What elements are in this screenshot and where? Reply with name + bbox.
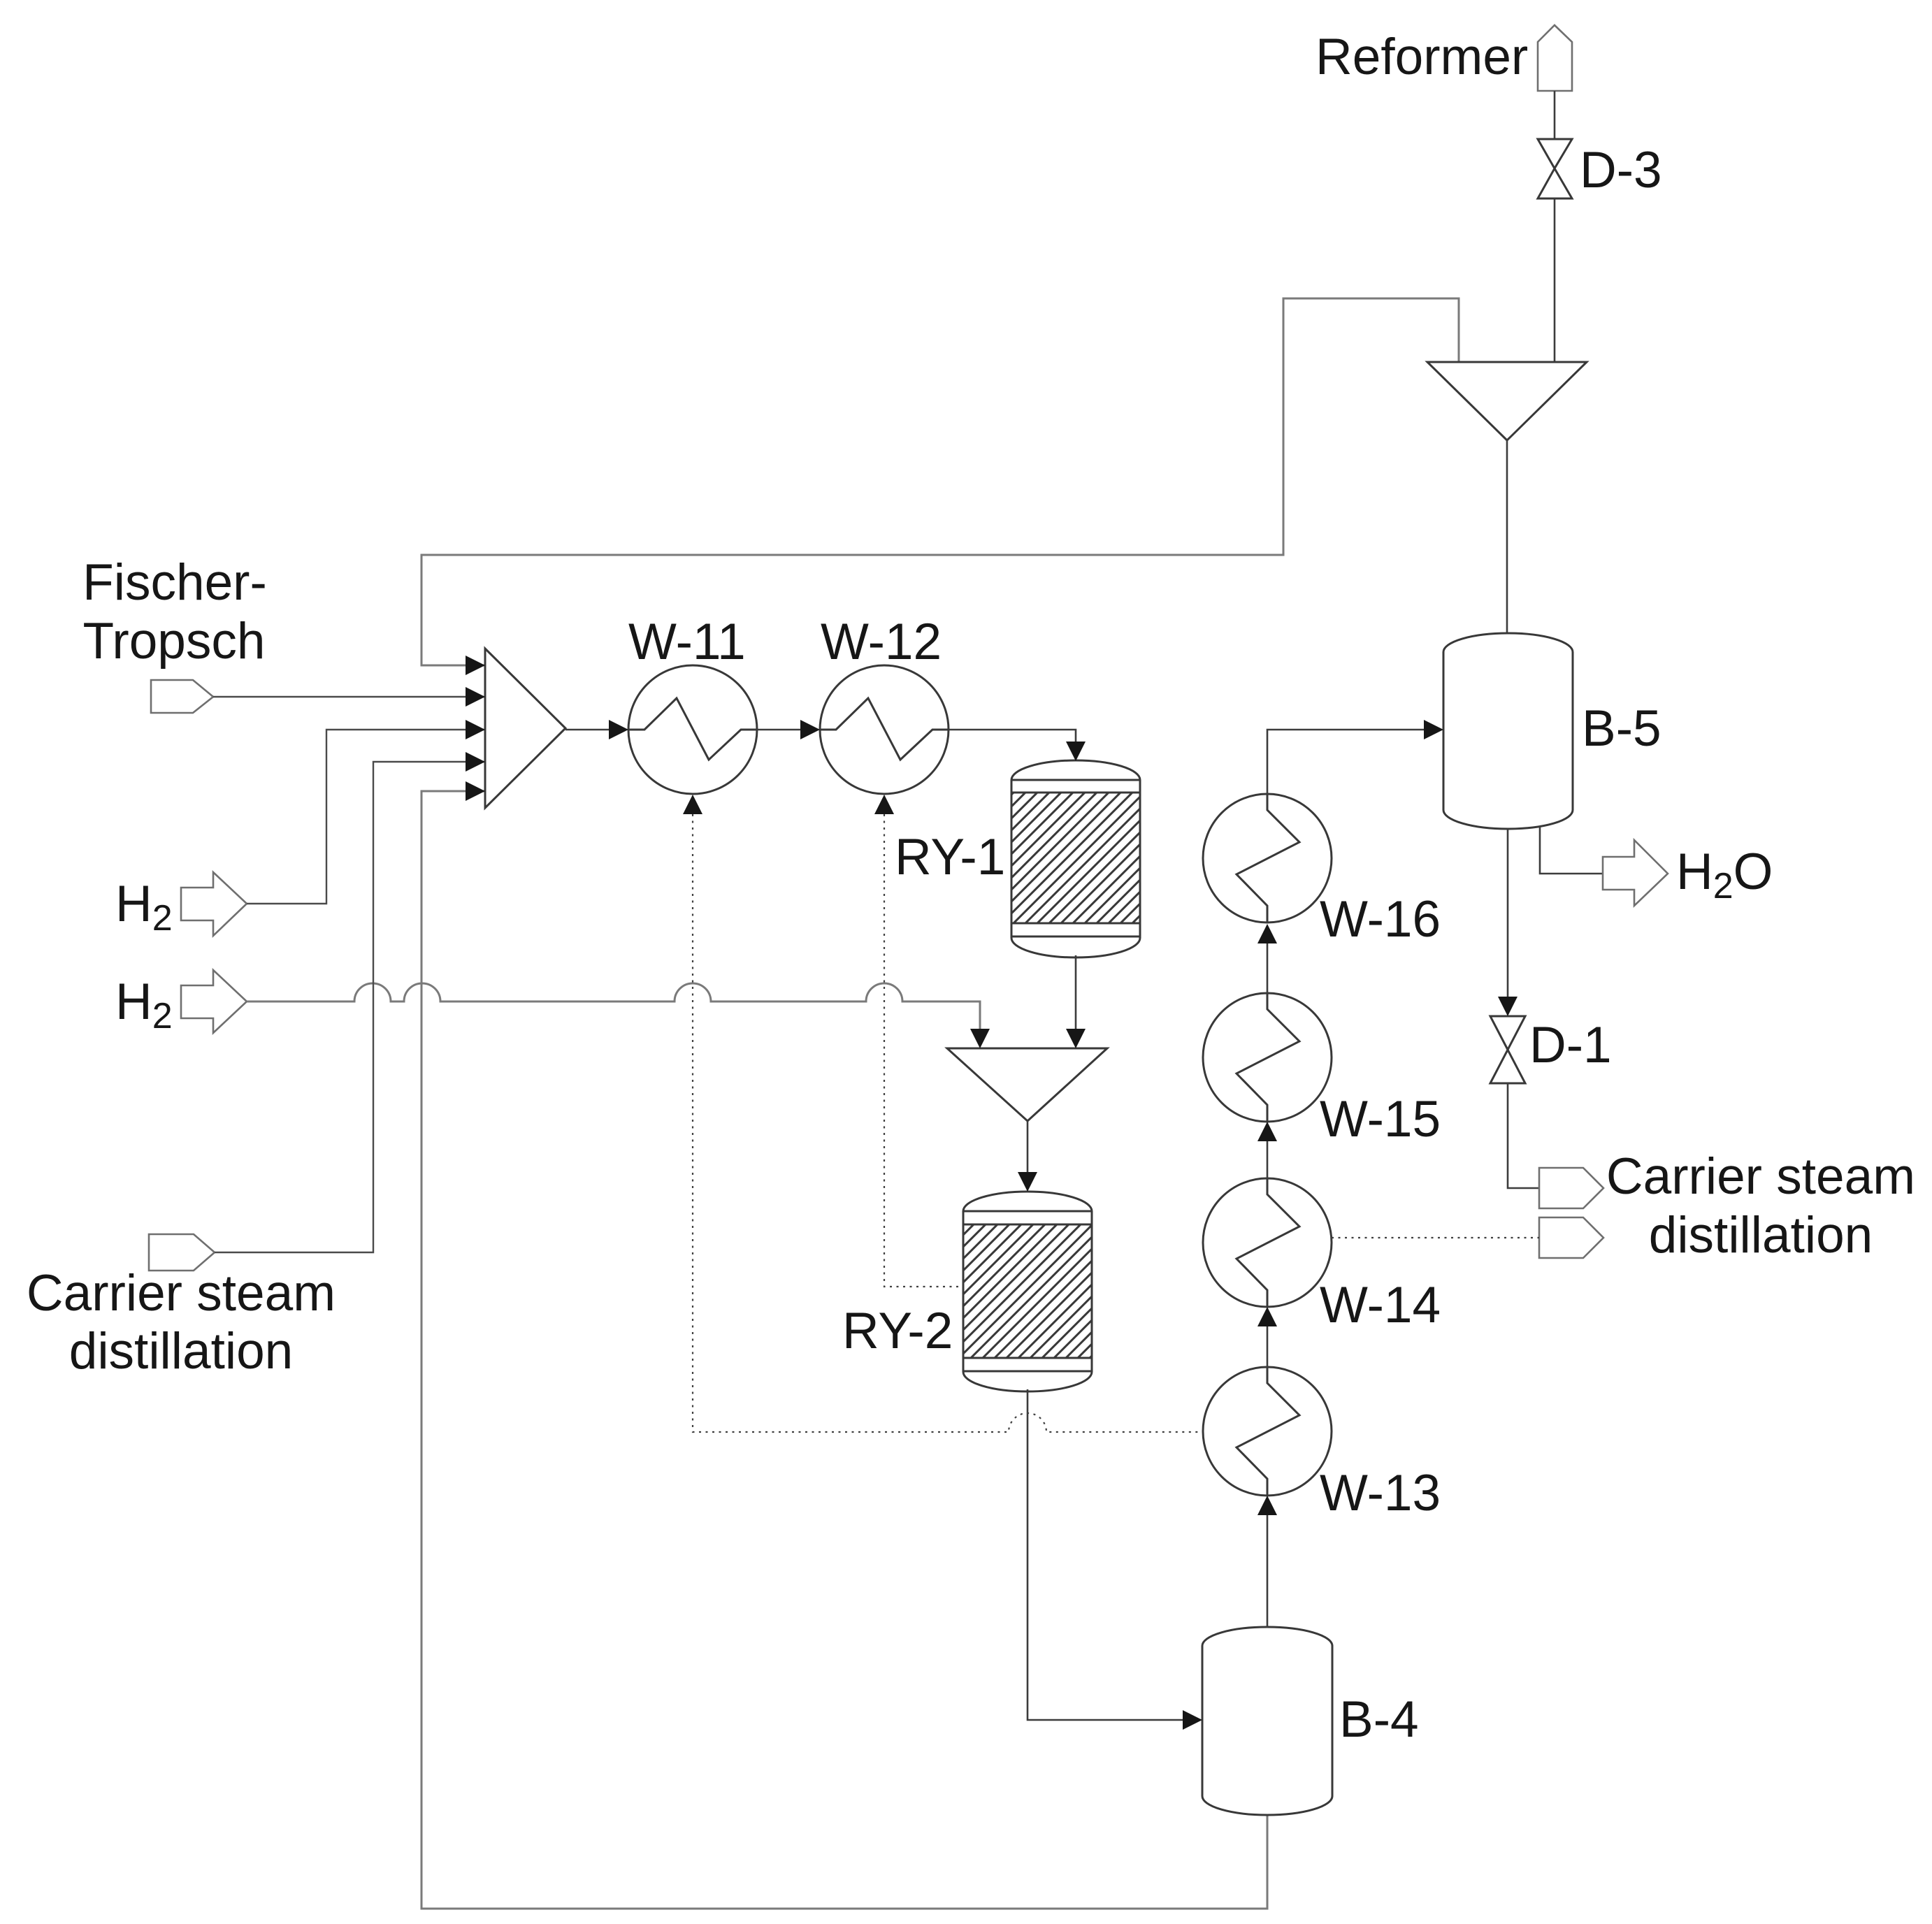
wire B-4 to W-13 [1267, 1514, 1269, 1628]
mixer M1 [485, 649, 565, 808]
svg-text:B-5: B-5 [1582, 700, 1661, 757]
flag Reformer inlet [1538, 25, 1572, 91]
wire RY-1 to M2 [1075, 955, 1077, 1030]
wire B-5 to H2O flag [1540, 826, 1603, 874]
svg-text:W-13: W-13 [1320, 1465, 1441, 1521]
valve D-3 [1538, 139, 1572, 198]
arrowhead into W-14 [1257, 1307, 1277, 1326]
valve D-1 [1490, 1016, 1525, 1083]
svg-text:D-3: D-3 [1580, 142, 1662, 198]
wire W-13 to W-14 [1267, 1325, 1269, 1367]
arrowhead into W-13 [1257, 1496, 1277, 1515]
vessel B-5 [1443, 633, 1573, 829]
arrowhead into RY-2 [1018, 1172, 1037, 1192]
heat exchanger W-16 [1203, 794, 1332, 923]
arrowhead into B-4 [1183, 1710, 1202, 1730]
arrowhead M1 input 5 [466, 781, 485, 801]
wire D-3 to mixer M3 [1554, 198, 1556, 362]
arrowhead M1 input 3 [466, 720, 485, 739]
arrowhead into W-11 [609, 720, 628, 739]
flag H2 inlet 2 [181, 970, 247, 1033]
svg-text:RY-1: RY-1 [895, 829, 1005, 885]
mixer M2 [947, 1048, 1107, 1121]
svg-text:distillation: distillation [69, 1323, 294, 1380]
wire B-5 to D-1 [1507, 829, 1509, 998]
svg-text:Carrier steam: Carrier steam [27, 1265, 336, 1322]
arrowhead into W-16 [1257, 924, 1277, 943]
svg-text:W-12: W-12 [821, 614, 942, 670]
wire Reformer to D-3 [1554, 91, 1556, 139]
flag H2O outlet [1603, 840, 1668, 906]
svg-text:distillation: distillation [1649, 1207, 1873, 1264]
svg-text:RY-2: RY-2 [842, 1303, 953, 1359]
wire Fischer-Tropsch to M1 input 2 [213, 696, 485, 697]
flag Fischer-Tropsch inlet [151, 680, 213, 713]
svg-text:D-1: D-1 [1529, 1017, 1612, 1073]
vessel B-4 [1202, 1627, 1332, 1815]
svg-text:Fischer-: Fischer- [82, 554, 267, 611]
svg-text:Carrier steam: Carrier steam [1606, 1148, 1915, 1205]
heat exchanger W-11 [628, 665, 757, 794]
wire D-1 to carrier steam flag [1508, 1083, 1539, 1188]
wire Carrier steam inlet to M1 input 4 [215, 762, 485, 1252]
svg-text:W-14: W-14 [1320, 1277, 1441, 1333]
flag carrier steam outlet 2 [1539, 1217, 1603, 1258]
mixer M3 [1427, 362, 1587, 440]
arrowhead into W-12 [800, 720, 820, 739]
heat exchanger W-12 [820, 665, 949, 794]
wire H2 inlet 1 to M1 input 3 [247, 730, 485, 904]
arrowhead M1 input 1 [466, 656, 485, 675]
arrowhead into D-1 [1498, 997, 1518, 1016]
wire recycle loop M1 input 1 [421, 298, 1459, 665]
wire M2 to RY-2 [1027, 1121, 1029, 1173]
heat exchanger W-13 [1203, 1367, 1332, 1496]
reactor RY-1 [1011, 760, 1140, 957]
svg-text:Tropsch: Tropsch [83, 613, 266, 670]
reactor RY-2 [963, 1192, 1092, 1391]
heat exchanger W-14 [1203, 1178, 1332, 1307]
svg-text:W-16: W-16 [1320, 891, 1441, 948]
svg-text:W-11: W-11 [628, 614, 746, 670]
arrowhead M1 input 2 [466, 687, 485, 707]
wire W-16 to B-5 [1267, 730, 1425, 794]
arrowhead into RY-1 [1066, 742, 1086, 761]
svg-text:Reformer: Reformer [1315, 29, 1528, 85]
arrowhead W-12 utility [874, 795, 894, 814]
flag Carrier steam distillation inlet [149, 1234, 215, 1271]
wire dotted W-11 utility line to W-13 [693, 814, 1202, 1432]
arrowhead into W-15 [1257, 1122, 1277, 1141]
arrowhead M1 input 4 [466, 752, 485, 772]
wire M1 to W-11 [565, 729, 609, 731]
heat exchanger W-15 [1203, 993, 1332, 1122]
arrowhead M2 input left [970, 1029, 990, 1048]
svg-text:B-4: B-4 [1339, 1691, 1419, 1748]
wire dotted W-14 to carrier steam outlet 2 [1332, 1237, 1539, 1238]
wire dotted W-12 utility line to RY-2 [884, 814, 963, 1287]
arrowhead M2 input right [1066, 1029, 1086, 1048]
arrowhead into B-5 [1424, 720, 1443, 739]
wire W-12 to RY-1 [949, 730, 1076, 743]
wire B-4 bottoms recycle to M1 input 5 [421, 791, 1267, 1909]
wire W-11 to W-12 [757, 729, 800, 731]
wire H2 inlet 2 to mixer M2 with hops [247, 983, 980, 1030]
svg-text:W-15: W-15 [1320, 1091, 1441, 1148]
arrowhead W-11 utility [683, 795, 702, 814]
wire W-14 to W-15 [1267, 1140, 1269, 1178]
wire RY-2 to B-4 [1028, 1389, 1184, 1720]
flag carrier steam outlet 1 [1539, 1168, 1603, 1208]
wire M3 to B-5 [1506, 440, 1508, 633]
flag H2 inlet 1 [181, 872, 247, 936]
wire W-15 to W-16 [1267, 942, 1269, 993]
